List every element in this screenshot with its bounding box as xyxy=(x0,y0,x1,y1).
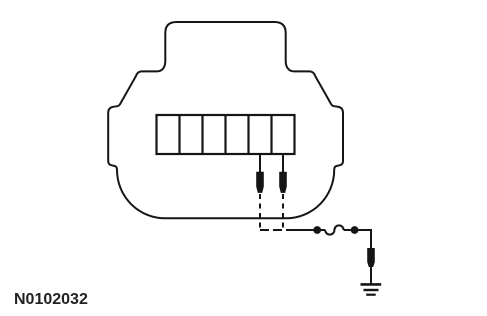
wire from cavity 5 to pin xyxy=(259,154,261,173)
part number label xyxy=(14,291,88,309)
connector body outline xyxy=(108,22,343,218)
ground terminal pin xyxy=(367,248,375,267)
wire solid to splice xyxy=(289,229,326,231)
splice dot right xyxy=(351,226,359,234)
terminal pin left (cavity 5) xyxy=(256,172,264,193)
wire down to ground xyxy=(370,266,372,284)
terminal strip outer rectangle xyxy=(157,115,295,154)
wire solid from squiggle to corner xyxy=(344,230,371,249)
ground bar middle xyxy=(364,289,379,291)
ground bar short xyxy=(366,294,376,296)
strip divider 5 xyxy=(270,115,272,154)
wire from cavity 6 to pin xyxy=(282,154,284,173)
strip divider 1 xyxy=(178,115,180,154)
splice dot left xyxy=(313,226,321,234)
strip divider 4 xyxy=(247,115,249,154)
splice squiggle xyxy=(325,225,343,234)
wire dashed right vertical xyxy=(282,194,284,230)
ground bar long xyxy=(361,283,382,286)
strip divider 2 xyxy=(201,115,203,154)
terminal pin right (cavity 6) xyxy=(279,172,287,193)
wire dashed bottom jog xyxy=(260,229,289,231)
strip divider 3 xyxy=(224,115,226,154)
wire dashed left vertical xyxy=(259,194,261,230)
